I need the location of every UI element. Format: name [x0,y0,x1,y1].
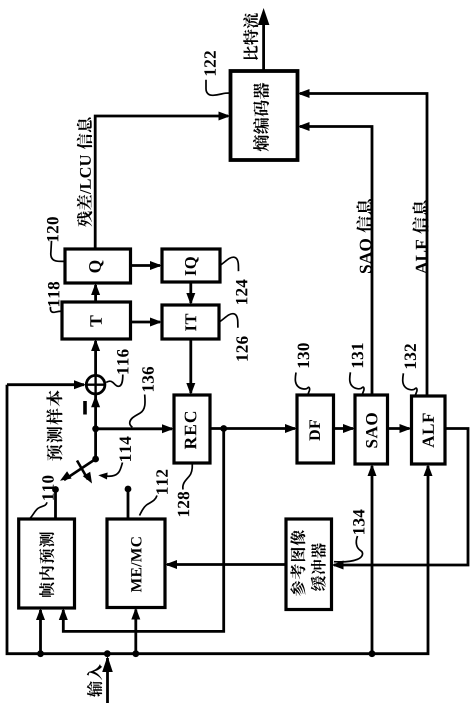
minus sign at adder [83,401,87,415]
label 118 [48,282,60,306]
wire input branch to ME/MC bottom [134,610,137,654]
wire prediction to REC [96,427,172,430]
switch 114 pole junction [92,456,99,463]
label 114 [120,436,131,461]
label 134 [353,509,365,534]
block IT 126 [162,305,219,339]
label 116 [117,349,129,373]
block T 118 [62,302,131,339]
switch arm toward intra contact [64,459,96,480]
label 126 [236,336,248,360]
wire input entry arrow [106,658,109,703]
switch contact to intra [52,486,59,493]
wire prediction sample: switch pole to adder [94,395,97,459]
block DF 130 [297,395,334,463]
wire DF to SAO [334,427,354,430]
switch contact to ME/MC [125,486,132,493]
wire SAO to ALF [388,427,410,430]
label input 输入 [87,664,102,697]
block Q 120 [65,249,131,283]
wire T to Q [94,285,97,302]
wire adder to T [94,341,97,375]
junction input/SAO branch [369,650,376,657]
label 122 [204,51,215,75]
label SAO 信息 [356,199,372,273]
wire bitstream output from entropy encoder [262,24,265,71]
wire Q to IQ [131,264,161,267]
block REC 128 [174,395,210,463]
arrow input branch up into ALF bottom [424,464,433,476]
label 残差/LCU 信息 [77,117,92,226]
wire T to IT [131,321,161,324]
junction REC output [220,425,227,432]
label 132 [405,344,417,368]
wire REC to DF [210,427,295,430]
wire residual/LCU info: Q top to entropy encoder left [95,116,228,249]
block reference picture buffer 参考图像缓冲器 134 [286,519,332,610]
label 136 [142,367,154,391]
junction adder-REC branch [92,425,99,432]
label bitstream 比特流 [243,13,258,60]
wire IQ to IT [189,282,192,303]
label ALF 信息 [412,200,428,274]
label 110 [42,476,54,500]
label 128 [178,492,190,516]
label 预测样本 [46,390,62,460]
block SAO 131 [355,395,388,464]
wire input branch to SAO bottom [371,466,374,654]
block ALF 132 [412,396,446,464]
block IQ 124 [162,249,220,282]
block ME/MC 112 [107,519,165,608]
label 131 [352,343,364,367]
label 130 [298,343,310,367]
wire input branch to intra bottom [39,610,42,654]
wire SAO info: SAO top to entropy right [300,127,372,396]
block entropy encoder 熵编码器 122 [231,71,298,160]
wire buffer to ME/MC [167,563,286,566]
wire ALF info: ALF top to entropy right [300,94,427,397]
wire ALF to reference picture buffer [334,429,468,566]
block intra prediction 帧内预测 110 [19,519,75,608]
adder (subtractor) circle 116 [86,375,105,394]
wire input line along bottom [7,385,428,654]
wire input to adder (left) [7,383,84,386]
label 120 [47,217,59,241]
switch arm toward ME/MC contact [77,461,88,480]
label 124 [236,279,247,304]
label 112 [156,470,167,494]
wire IT to REC [189,339,192,393]
wire REC output down/left to intra prediction [63,429,223,632]
